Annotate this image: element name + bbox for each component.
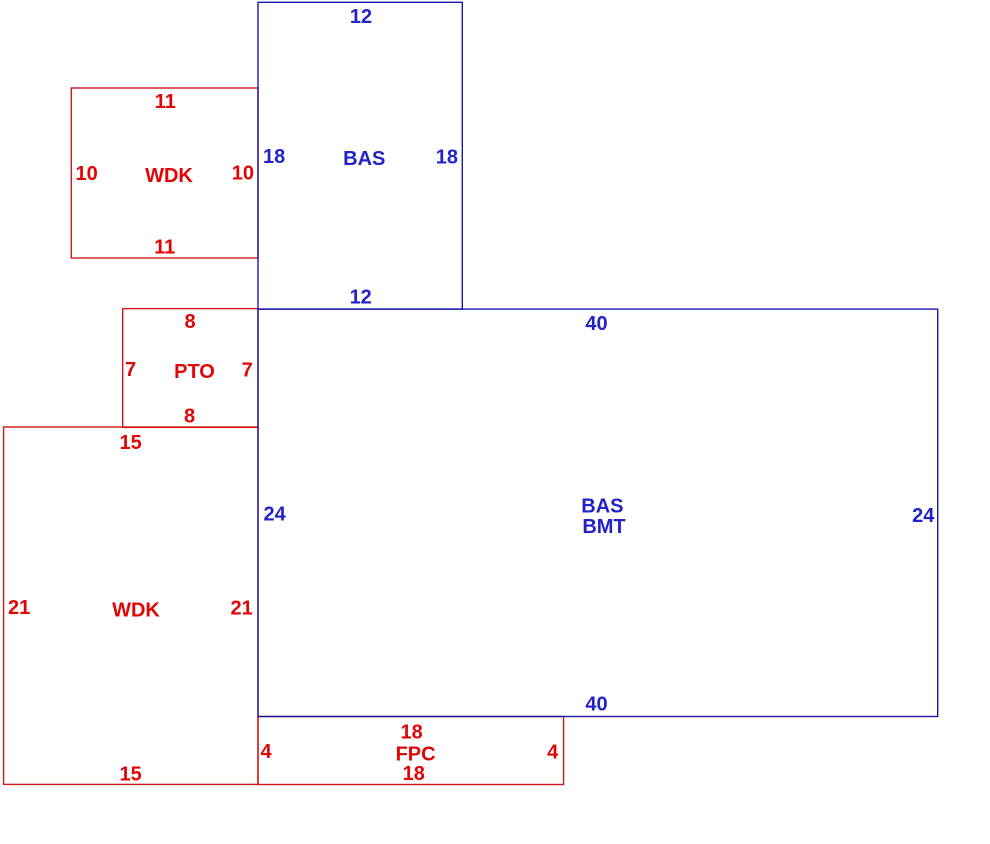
room FPC outline bbox=[258, 717, 564, 785]
svg-text:BAS: BAS bbox=[581, 496, 623, 518]
svg-text:BMT: BMT bbox=[582, 516, 625, 538]
svg-text:12: 12 bbox=[350, 287, 372, 309]
svg-text:21: 21 bbox=[8, 597, 30, 619]
room WDK (upper deck) outline bbox=[71, 88, 258, 258]
svg-text:18: 18 bbox=[400, 721, 422, 743]
svg-text:18: 18 bbox=[436, 147, 458, 169]
svg-text:8: 8 bbox=[184, 311, 195, 333]
room PTO outline bbox=[123, 309, 258, 428]
svg-text:4: 4 bbox=[547, 741, 559, 763]
svg-text:11: 11 bbox=[154, 236, 175, 258]
room BAS outline bbox=[258, 2, 462, 309]
svg-text:WDK: WDK bbox=[112, 599, 160, 621]
svg-text:WDK: WDK bbox=[145, 165, 193, 187]
svg-text:24: 24 bbox=[912, 505, 935, 527]
svg-text:24: 24 bbox=[264, 504, 287, 526]
svg-text:BAS: BAS bbox=[343, 148, 385, 170]
svg-text:15: 15 bbox=[119, 432, 141, 454]
svg-text:21: 21 bbox=[231, 597, 253, 619]
room WDK (lower deck) outline bbox=[4, 427, 258, 784]
svg-text:15: 15 bbox=[119, 764, 141, 786]
room BAS BMT outline bbox=[258, 309, 938, 716]
svg-text:40: 40 bbox=[585, 694, 607, 716]
svg-text:11: 11 bbox=[155, 91, 176, 113]
svg-text:8: 8 bbox=[184, 405, 195, 427]
svg-text:40: 40 bbox=[585, 313, 607, 335]
svg-text:12: 12 bbox=[350, 6, 372, 28]
svg-text:10: 10 bbox=[76, 163, 98, 185]
svg-text:18: 18 bbox=[263, 146, 285, 168]
svg-text:7: 7 bbox=[242, 359, 253, 381]
svg-text:10: 10 bbox=[232, 163, 254, 185]
svg-text:7: 7 bbox=[125, 359, 136, 381]
svg-text:4: 4 bbox=[261, 741, 273, 763]
svg-text:PTO: PTO bbox=[174, 361, 215, 383]
svg-text:18: 18 bbox=[403, 763, 425, 785]
